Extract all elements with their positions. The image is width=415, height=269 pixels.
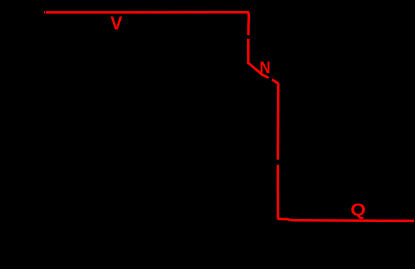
wire top plateau <box>46 11 247 14</box>
wire diagonal part 2 <box>272 79 279 83</box>
wire lower vertical upper part <box>277 84 280 160</box>
svg-text:Q: Q <box>351 199 366 219</box>
wire upper vertical drop lower part <box>247 39 250 63</box>
svg-text:N: N <box>260 59 271 77</box>
wire top plateau start dash <box>44 11 45 14</box>
wire upper vertical drop upper part <box>247 11 249 35</box>
wire lower vertical lower part <box>277 165 280 219</box>
wire bottom plateau <box>277 219 414 221</box>
svg-text:V: V <box>110 14 122 34</box>
wire diagonal part 1 <box>248 62 269 78</box>
